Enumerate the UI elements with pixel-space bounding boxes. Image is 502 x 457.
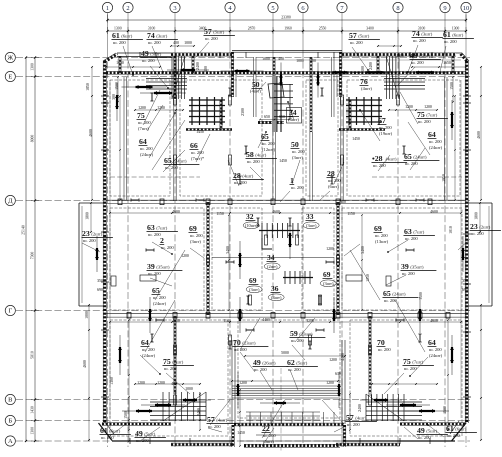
svg-text:(4шт): (4шт) — [355, 416, 366, 421]
svg-text:ш. 200: ш. 200 — [190, 233, 203, 238]
left dimension chain — [31, 56, 39, 442]
label 75 bottom-right — [403, 357, 434, 371]
svg-text:(3шт): (3шт) — [271, 295, 282, 300]
svg-text:(3шт): (3шт) — [156, 34, 167, 39]
outer wall top right wing (row Ж) — [342, 53, 456, 56]
label 49 top-right — [410, 51, 441, 65]
svg-text:ш. 200: ш. 200 — [142, 347, 155, 352]
svg-text:(6шт): (6шт) — [328, 184, 339, 189]
svg-text:(7шт)*: (7шт)* — [191, 156, 205, 161]
svg-text:400: 400 — [310, 59, 316, 63]
svg-text:(4шт): (4шт) — [216, 418, 227, 423]
interior wall row Д — [106, 199, 466, 205]
svg-text:61: 61 — [112, 31, 120, 40]
label 50 centre — [291, 140, 306, 160]
svg-text:(24шт): (24шт) — [140, 152, 154, 157]
bottom centre 1200 chain — [231, 380, 339, 382]
svg-text:3400: 3400 — [366, 27, 374, 31]
svg-text:61: 61 — [100, 426, 108, 435]
svg-text:(2шт): (2шт) — [267, 264, 278, 269]
svg-text:76: 76 — [360, 77, 368, 86]
left overall dimension 25140 — [22, 56, 28, 442]
svg-text:2300: 2300 — [241, 108, 245, 116]
svg-text:1200: 1200 — [326, 381, 334, 385]
svg-text:8000: 8000 — [31, 135, 35, 143]
svg-text:4600: 4600 — [430, 319, 438, 323]
svg-text:ш. 200: ш. 200 — [161, 245, 174, 250]
svg-text:ш. 200: ш. 200 — [113, 40, 126, 45]
label 65 upper-right — [404, 152, 440, 166]
svg-text:1000: 1000 — [296, 59, 304, 63]
svg-text:ш. 200: ш. 200 — [205, 36, 218, 41]
svg-text:1300: 1300 — [110, 377, 114, 385]
svg-text:ш. 200: ш. 200 — [413, 38, 426, 43]
svg-text:1200: 1200 — [137, 381, 145, 385]
svg-text:300: 300 — [112, 94, 116, 100]
stairwell wall top-left inner — [192, 56, 194, 74]
svg-text:ш. 200: ш. 200 — [153, 295, 166, 300]
interior wall row Г — [106, 313, 466, 319]
label 66 upper-left — [190, 141, 205, 161]
right bay vertical chain — [479, 202, 481, 233]
label 76 upper-right — [360, 77, 373, 91]
centre entrance block bottom wall — [244, 444, 340, 447]
lift shaft bottom wall — [258, 121, 284, 123]
small interior dimension texts — [83, 41, 481, 435]
svg-text:59: 59 — [290, 329, 298, 338]
svg-text:ш. 200: ш. 200 — [379, 125, 392, 130]
svg-text:1850: 1850 — [86, 83, 90, 91]
svg-text:ш. 200: ш. 200 — [292, 149, 305, 154]
svg-text:36: 36 — [271, 284, 279, 293]
outer wall bottom left thick line — [112, 440, 233, 442]
label 49 bottom-centre — [253, 358, 289, 372]
label 62 bottom-centre — [287, 358, 318, 372]
label 49 bottom-right — [417, 426, 448, 440]
ladder rails top-centre — [277, 76, 290, 132]
label 61 bottom-right — [446, 424, 477, 438]
svg-text:ш. 200: ш. 200 — [418, 435, 431, 440]
svg-text:ш. 200: ш. 200 — [444, 39, 457, 44]
svg-text:(5шт): (5шт) — [296, 361, 307, 366]
svg-text:49: 49 — [135, 429, 143, 438]
top centre connector wall left — [231, 52, 236, 97]
svg-text:ш. 200: ш. 200 — [234, 347, 247, 352]
beam dash line right room — [372, 176, 462, 178]
svg-text:1200: 1200 — [326, 247, 334, 251]
svg-text:ш. 200: ш. 200 — [418, 119, 431, 124]
svg-text:39: 39 — [147, 262, 155, 271]
rebar mesh top-right — [346, 97, 382, 125]
svg-text:(7шт): (7шт) — [413, 230, 424, 235]
svg-text:610: 610 — [335, 372, 341, 376]
svg-text:4600: 4600 — [172, 319, 180, 323]
stair flight top-left horizontal — [146, 79, 187, 90]
svg-text:63: 63 — [147, 223, 155, 232]
svg-text:690: 690 — [462, 288, 468, 292]
svg-text:1200: 1200 — [329, 358, 337, 362]
svg-text:(3шт): (3шт) — [306, 223, 317, 228]
svg-text:9: 9 — [443, 5, 446, 12]
svg-text:(19шт): (19шт) — [379, 131, 393, 136]
bottom inner vchain left — [128, 396, 130, 442]
svg-text:2400: 2400 — [197, 408, 201, 416]
svg-text:ш. 200: ш. 200 — [375, 233, 388, 238]
svg-text:63: 63 — [404, 227, 412, 236]
outer wall top left wing (row Ж) — [171, 53, 232, 56]
svg-text:(10шт): (10шт) — [245, 223, 258, 228]
svg-text:1150: 1150 — [216, 212, 224, 216]
svg-text:49: 49 — [417, 426, 425, 435]
label 70 bottom-left — [233, 338, 269, 352]
svg-text:(5шт): (5шт) — [213, 30, 224, 35]
label 39 mid-right — [401, 262, 437, 276]
svg-text:650: 650 — [279, 115, 285, 119]
centre block vchain — [239, 389, 241, 447]
svg-text:2550: 2550 — [319, 27, 327, 31]
svg-text:1000: 1000 — [396, 54, 404, 58]
svg-text:(7шт): (7шт) — [156, 226, 167, 231]
svg-text:3: 3 — [173, 5, 176, 12]
label 61 bottom-left — [100, 426, 131, 440]
svg-text:65: 65 — [383, 289, 391, 298]
svg-text:690: 690 — [97, 288, 103, 292]
svg-text:1800: 1800 — [86, 212, 90, 220]
svg-text:3400: 3400 — [361, 246, 365, 254]
rebar hook centre — [262, 238, 272, 249]
lift shaft grey wall — [272, 76, 277, 132]
svg-text:ш. 200: ш. 200 — [411, 60, 424, 65]
svg-text:ш. 200: ш. 200 — [148, 271, 161, 276]
svg-text:ш. 200: ш. 200 — [291, 185, 304, 190]
svg-text:(6шт): (6шт) — [455, 427, 466, 432]
stair dim chain bottom-left — [134, 383, 201, 385]
svg-text:1500: 1500 — [443, 406, 447, 414]
svg-text:1500: 1500 — [419, 292, 423, 300]
svg-text:ш. 200: ш. 200 — [254, 367, 267, 372]
interior wall x208 middle — [207, 202, 209, 315]
svg-text:350: 350 — [462, 279, 468, 283]
svg-text:ш. 200: ш. 200 — [373, 163, 386, 168]
stairwell wall top-right inner — [377, 56, 379, 74]
svg-text:4600: 4600 — [172, 210, 180, 214]
svg-text:1200: 1200 — [138, 106, 146, 110]
right inner vertical chain upper — [480, 66, 482, 201]
room boundary dashed outlines — [110, 80, 462, 436]
svg-text:100: 100 — [204, 66, 208, 72]
svg-text:ш. 200: ш. 200 — [378, 347, 391, 352]
svg-text:(3шт): (3шт) — [249, 287, 260, 292]
label 69 centre-left — [246, 276, 262, 293]
svg-text:ш. 200: ш. 200 — [234, 180, 247, 185]
svg-text:1: 1 — [106, 5, 109, 12]
svg-text:Е: Е — [8, 74, 12, 81]
svg-text:1300: 1300 — [31, 427, 35, 435]
label 64 bottom-left — [141, 338, 156, 358]
top-left 400-1000 chain — [170, 45, 195, 47]
left inner vertical chain upper — [91, 66, 93, 201]
svg-text:1500: 1500 — [115, 82, 119, 90]
stair dim chain top-right — [388, 109, 438, 111]
bottom 5000 chain — [244, 355, 346, 357]
label 57 bottom-right — [346, 413, 377, 427]
svg-text:(24шт): (24шт) — [392, 292, 406, 297]
svg-text:61: 61 — [443, 30, 451, 39]
mid chain below row Г — [109, 321, 462, 323]
svg-text:ш. 200: ш. 200 — [402, 271, 415, 276]
svg-text:1000: 1000 — [85, 311, 89, 319]
svg-text:ш. 200: ш. 200 — [138, 120, 151, 125]
anchor plate glyphs — [111, 275, 391, 286]
upper room vchain right — [454, 95, 456, 201]
svg-text:ш. 200: ш. 200 — [142, 58, 155, 63]
row А line through centre block — [240, 368, 350, 452]
label 36 centre — [268, 284, 284, 301]
label 34 mid-centre — [264, 253, 280, 270]
interior wall axis 7 upper — [341, 97, 343, 201]
svg-text:70: 70 — [233, 338, 241, 347]
wall top-left chamfer — [103, 53, 118, 62]
svg-text:ш. 200: ш. 200 — [148, 40, 161, 45]
svg-text:ш. 200: ш. 200 — [165, 165, 178, 170]
top dimension chain 1300..1300 — [106, 27, 467, 35]
stairwell bottom wall top-left — [186, 128, 232, 130]
svg-text:1010: 1010 — [449, 226, 453, 234]
outer wall top thin segments — [117, 53, 461, 57]
svg-text:1200: 1200 — [157, 381, 165, 385]
svg-text:ш. 200: ш. 200 — [164, 366, 177, 371]
label 64 bottom-right — [428, 338, 443, 358]
label 23 mid-left — [82, 229, 113, 243]
label 2 mid-left — [160, 236, 175, 250]
svg-text:61: 61 — [446, 424, 454, 433]
lower room vchain left — [128, 319, 130, 431]
beam line centre — [212, 257, 334, 259]
svg-text:69: 69 — [189, 224, 197, 233]
scattered rebar pin glyphs — [131, 88, 424, 349]
interior partition x125 — [124, 77, 127, 200]
svg-text:(5шт): (5шт) — [358, 34, 369, 39]
svg-text:62: 62 — [287, 358, 295, 367]
svg-text:400: 400 — [173, 41, 179, 45]
svg-text:(5шт): (5шт) — [419, 54, 430, 59]
svg-text:ш. 200: ш. 200 — [83, 238, 96, 243]
svg-text:ш. 200: ш. 200 — [247, 159, 260, 164]
svg-text:ш. 200: ш. 200 — [447, 433, 460, 438]
svg-text:2: 2 — [126, 5, 129, 12]
svg-text:33: 33 — [306, 212, 314, 221]
svg-text:57: 57 — [207, 415, 215, 424]
svg-text:(2шт): (2шт) — [91, 232, 102, 237]
svg-text:64: 64 — [428, 130, 436, 139]
svg-text:4600: 4600 — [89, 129, 93, 137]
interior wall centre-left shaft — [273, 57, 276, 201]
bold rebar bar symbols — [95, 63, 465, 414]
svg-text:69: 69 — [323, 270, 331, 279]
svg-text:1450: 1450 — [196, 130, 204, 134]
row grid bubbles Ж-А — [5, 52, 15, 446]
svg-text:1500: 1500 — [124, 411, 128, 419]
label 75 upper-right — [417, 110, 448, 124]
label 75 upper-left — [137, 111, 152, 131]
wall inner face lines and mullions — [110, 52, 461, 444]
entrance steps bottom-centre — [250, 412, 334, 424]
top-left 1650 chain — [105, 66, 161, 68]
label 58 centre — [246, 150, 277, 164]
svg-text:Д: Д — [8, 198, 13, 205]
svg-text:4400: 4400 — [262, 318, 270, 322]
svg-text:2400: 2400 — [358, 404, 362, 412]
mid chain below row Д — [109, 212, 462, 214]
label 49 top-left — [141, 49, 172, 63]
lower room vchain right — [447, 319, 449, 431]
svg-text:75: 75 — [163, 357, 171, 366]
interior wall x338 middle — [337, 202, 339, 315]
svg-text:57: 57 — [204, 27, 212, 36]
svg-text:1300: 1300 — [452, 27, 460, 31]
svg-text:1000: 1000 — [184, 41, 192, 45]
svg-text:(4шт): (4шт) — [386, 157, 397, 162]
svg-text:В: В — [8, 397, 12, 404]
svg-text:(24шт): (24шт) — [153, 301, 167, 306]
svg-text:1500: 1500 — [450, 82, 454, 90]
svg-text:1000: 1000 — [185, 387, 193, 391]
svg-text:2: 2 — [160, 236, 164, 245]
svg-text:1300: 1300 — [114, 27, 122, 31]
label 39 mid-left — [147, 262, 183, 276]
left inner vertical chain lower — [88, 304, 90, 441]
stairwell wall top-left right side — [220, 100, 222, 130]
svg-text:(7шт): (7шт) — [426, 113, 437, 118]
svg-text:1150: 1150 — [347, 212, 355, 216]
column / pier marks — [174, 95, 400, 405]
svg-text:1650: 1650 — [443, 61, 451, 65]
svg-text:75: 75 — [403, 357, 411, 366]
left bay vertical chain — [90, 202, 92, 233]
svg-text:1300: 1300 — [31, 63, 35, 71]
label 75 bottom-left — [163, 357, 194, 371]
svg-text:(2шт): (2шт) — [479, 225, 490, 230]
label 65 centre — [261, 132, 276, 152]
svg-text:65: 65 — [164, 156, 172, 165]
stair treads top-left — [172, 56, 185, 99]
svg-text:1450: 1450 — [279, 159, 287, 163]
interior wall lower-left x175 — [174, 316, 176, 394]
svg-text:75: 75 — [137, 111, 145, 120]
svg-text:ш. 200: ш. 200 — [429, 347, 442, 352]
svg-text:Б: Б — [8, 418, 12, 425]
svg-text:350: 350 — [97, 279, 103, 283]
slab rebar lines bottom-centre — [232, 386, 338, 420]
svg-text:49: 49 — [141, 49, 149, 58]
label 69 centre-right — [320, 270, 336, 287]
svg-text:(35шт): (35шт) — [156, 265, 170, 270]
svg-text:64: 64 — [139, 137, 147, 146]
stair treads bottom-left — [163, 392, 206, 421]
svg-text:39: 39 — [401, 262, 409, 271]
svg-text:57: 57 — [349, 31, 357, 40]
svg-text:5810: 5810 — [31, 351, 35, 359]
svg-text:ш. 200: ш. 200 — [350, 40, 363, 45]
top overall dimension 23380 — [106, 15, 467, 23]
upper room vchain left — [119, 95, 121, 201]
row Б wall right segment — [400, 423, 465, 426]
svg-text:(26шт): (26шт) — [262, 361, 276, 366]
wall bottom-left chamfer — [99, 421, 115, 441]
svg-text:(3шт): (3шт) — [190, 239, 201, 244]
svg-text:58: 58 — [246, 150, 254, 159]
top wall inner vchain right — [452, 76, 454, 103]
svg-text:1450: 1450 — [237, 431, 245, 435]
svg-text:(24шт): (24шт) — [429, 145, 443, 150]
svg-text:ш. 200: ш. 200 — [347, 422, 360, 427]
bottom inner vchain x200 — [199, 393, 201, 431]
label 33 centre — [303, 212, 319, 229]
svg-text:2400: 2400 — [196, 62, 200, 70]
label 32 centre — [243, 212, 259, 229]
stair treads top-right — [386, 56, 399, 99]
svg-text:ш. 200: ш. 200 — [429, 139, 442, 144]
svg-text:74: 74 — [147, 31, 155, 40]
wall bottom-right chamfer — [450, 421, 466, 441]
window jamb ticks on side walls — [101, 96, 471, 397]
label 57 top-left — [204, 27, 235, 41]
svg-text:100: 100 — [361, 66, 365, 72]
svg-text:ш. 200: ш. 200 — [263, 433, 276, 438]
top wall inner vchain left — [117, 76, 119, 103]
label 65 lower-right — [383, 289, 419, 303]
svg-text:2870: 2870 — [248, 27, 256, 31]
svg-text:А: А — [8, 438, 13, 445]
svg-text:66: 66 — [190, 141, 198, 150]
svg-text:65: 65 — [404, 152, 412, 161]
svg-text:69: 69 — [249, 276, 257, 285]
svg-text:1800: 1800 — [475, 212, 479, 220]
right wing end wall stub — [452, 56, 454, 74]
svg-text:3100: 3100 — [148, 27, 156, 31]
comb rebar centre 32-33 — [259, 223, 300, 238]
svg-text:67: 67 — [378, 116, 386, 125]
svg-text:4600: 4600 — [430, 210, 438, 214]
svg-text:1000: 1000 — [262, 57, 270, 61]
label 23 mid-right — [470, 222, 501, 236]
label 69 mid-left — [189, 224, 204, 244]
label 63 mid-right — [404, 227, 435, 241]
svg-text:1960: 1960 — [284, 27, 292, 31]
svg-text:(4шт): (4шт) — [242, 174, 253, 179]
label leader lines — [82, 42, 470, 446]
svg-text:(24шт): (24шт) — [413, 155, 427, 160]
svg-text:74: 74 — [412, 29, 420, 38]
svg-text:23380: 23380 — [281, 16, 291, 20]
label 74 top-left — [147, 31, 178, 45]
svg-text:64: 64 — [141, 338, 149, 347]
shaft partition left thin — [254, 57, 257, 117]
svg-text:ш. 200: ш. 200 — [471, 231, 484, 236]
label 49 bottom-left — [135, 429, 166, 443]
svg-text:64: 64 — [428, 338, 436, 347]
svg-text:(24шт): (24шт) — [429, 353, 443, 358]
interior wall lower-right x370 — [369, 316, 371, 394]
stair flight bottom-right horizontal — [366, 402, 422, 420]
shaft partition right thin — [332, 57, 335, 117]
top centre recessed edge — [232, 51, 342, 53]
stair flight top-right horizontal — [384, 79, 425, 90]
label 61 top-right — [443, 30, 474, 44]
label 74 top-right — [412, 29, 443, 43]
top-right 1650 chain — [411, 66, 467, 68]
svg-text:400: 400 — [278, 57, 284, 61]
